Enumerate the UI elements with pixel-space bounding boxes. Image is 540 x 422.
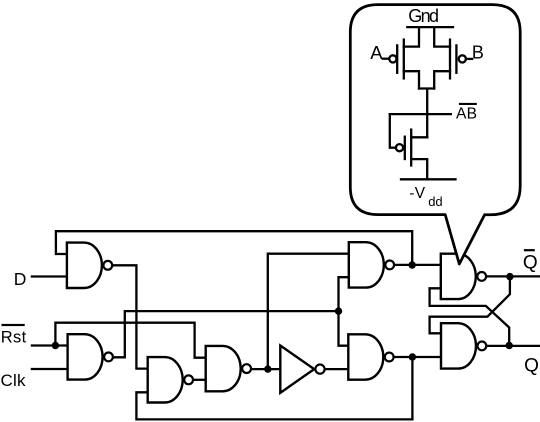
nand gate G6 bbox=[348, 334, 393, 379]
nand gate G8 (Q latch) bbox=[441, 323, 486, 368]
wire G4 output to inverter input bbox=[251, 368, 281, 370]
power rail -Vdd bbox=[401, 178, 456, 180]
wire G3 output to G4 bottom input bbox=[193, 379, 206, 381]
transistor Q2 (PMOS, gate B) bbox=[434, 27, 472, 88]
svg-text:Q: Q bbox=[523, 252, 538, 273]
wire Qbar cross-couple to G8 top input bbox=[430, 277, 510, 334]
label -Vdd bbox=[409, 185, 442, 209]
callout bubble with tail pointing at gate G7 bbox=[350, 5, 520, 264]
wire G6 output to G8 bottom input bbox=[394, 356, 441, 358]
wire G2 output to tee node bbox=[112, 311, 338, 357]
node junction Q bbox=[506, 342, 513, 349]
svg-text:Q: Q bbox=[524, 355, 539, 376]
nand gate G1 (D input) bbox=[67, 243, 112, 288]
node junction G4 output bbox=[264, 365, 271, 372]
transistor Q3 (PMOS, gate tied to ABbar) bbox=[390, 114, 427, 179]
wire G7 output to Qbar bbox=[486, 275, 540, 277]
node junction G6 output bbox=[409, 353, 416, 360]
wire G5 output to G7 top input bbox=[395, 264, 441, 266]
node junction G5 output bbox=[409, 261, 416, 268]
wire Clk input bbox=[32, 368, 68, 370]
svg-text:Clk: Clk bbox=[1, 371, 27, 390]
wire G6 output feedback via bottom rail to G3 bottom input bbox=[136, 357, 412, 419]
svg-text:Rst: Rst bbox=[1, 329, 27, 347]
wire inverter output to G6 bottom input bbox=[325, 368, 348, 370]
wire G8 output to Q bbox=[487, 345, 540, 347]
nand gate G7 (Qbar latch) bbox=[441, 254, 486, 299]
transistor Q1 (PMOS, gate A) bbox=[383, 27, 419, 88]
wire G4 output branch to G5 top input bbox=[268, 254, 349, 369]
svg-text:D: D bbox=[14, 269, 27, 289]
wire Q cross-couple to G7 bottom input bbox=[430, 288, 510, 345]
nand gate G5 bbox=[349, 242, 394, 287]
inverter U1 bbox=[280, 346, 324, 393]
svg-text:Gnd: Gnd bbox=[408, 6, 439, 26]
wire net D-ff top rail: G1 top input to G5 output node bbox=[56, 231, 412, 265]
node ABbar horizontal wire bbox=[390, 113, 451, 115]
ground rail Gnd bbox=[407, 26, 453, 28]
node junction tee on G2 output wire bbox=[335, 307, 342, 314]
svg-text:A: A bbox=[370, 42, 383, 63]
svg-text:V: V bbox=[415, 185, 426, 202]
wire Rst input bbox=[32, 344, 68, 346]
nand gate G3 bbox=[148, 357, 193, 402]
wire shared source join to ABbar node bbox=[419, 89, 434, 138]
wire Rst branch to G4 top input bbox=[55, 323, 205, 358]
svg-text:dd: dd bbox=[428, 194, 442, 209]
svg-text:-: - bbox=[409, 185, 414, 202]
label Qbar bbox=[523, 249, 538, 273]
nand gate G4 bbox=[206, 346, 251, 391]
label Rst with overbar bbox=[1, 324, 27, 347]
wire D input bbox=[32, 275, 67, 277]
wire G1 output to G3 top input bbox=[113, 265, 148, 368]
node junction on Rst wire bbox=[52, 342, 59, 349]
svg-text:B: B bbox=[472, 43, 484, 63]
svg-text:AB: AB bbox=[456, 105, 477, 122]
wire tee vertical G5 bottom input to G6 top input bbox=[339, 277, 349, 346]
node junction Qbar bbox=[506, 273, 513, 280]
label ABbar bbox=[456, 103, 477, 123]
nand gate G2 (Rst/Clk input) bbox=[68, 334, 113, 379]
